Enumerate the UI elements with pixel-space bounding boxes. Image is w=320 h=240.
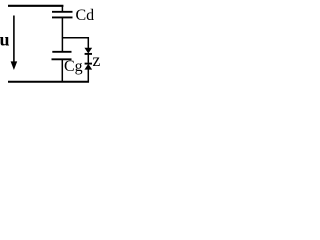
voltage arrow u (11, 16, 18, 71)
diode D2 (bottom of arrester, pointing up) (85, 64, 92, 70)
wire from D2 to bottom wire (87, 69, 89, 83)
wire vertical from Cd to Cg (61, 17, 63, 51)
svg-text:Cd: Cd (76, 7, 95, 24)
wire top horizontal (8, 5, 63, 7)
background (0, 0, 103, 88)
svg-text:u: u (0, 29, 10, 49)
svg-text:z: z (92, 50, 100, 70)
wire bottom horizontal (8, 81, 89, 83)
wire branch to arrester (62, 38, 88, 49)
diode D1 (top of arrester, pointing down) (85, 48, 92, 54)
wire between diodes (87, 55, 89, 63)
svg-text:Cg: Cg (64, 58, 83, 75)
capacitor Cd (52, 12, 73, 18)
wire stub from Cg to bottom wire (61, 59, 63, 82)
capacitor Cg (52, 52, 72, 60)
wire stub from top wire to Cd (61, 5, 63, 12)
